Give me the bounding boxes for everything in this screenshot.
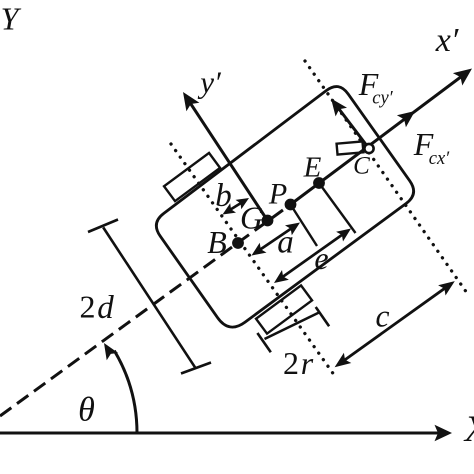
svg-text:P: P — [268, 178, 287, 211]
2d end tick top — [88, 220, 118, 233]
svg-text:X: X — [463, 409, 474, 450]
2r end tick right — [316, 307, 329, 326]
svg-text:C: C — [353, 153, 370, 180]
svg-text:x′: x′ — [435, 22, 459, 59]
force arrow F_cy' at C — [337, 107, 369, 149]
svg-text:2: 2 — [80, 289, 96, 325]
point B dot — [232, 237, 244, 249]
dotted axle line through B — [171, 144, 337, 379]
svg-text:2: 2 — [283, 345, 299, 381]
2d end tick bottom — [181, 363, 211, 374]
svg-text:y′: y′ — [197, 65, 222, 100]
svg-text:G: G — [240, 200, 263, 236]
dashed axis line through B and G to P — [0, 205, 291, 417]
X axis — [0, 432, 438, 435]
2r end tick left — [257, 333, 270, 352]
y' axis from G — [189, 101, 268, 221]
point C (castor contact) open circle — [364, 144, 373, 153]
foot line from E — [319, 183, 356, 233]
svg-text:B: B — [207, 224, 227, 260]
dimension arrow e — [281, 233, 344, 278]
wheel W1 (left drive wheel) — [164, 153, 220, 201]
point P dot — [285, 199, 297, 211]
svg-text:cx′: cx′ — [429, 149, 450, 169]
svg-text:c: c — [376, 299, 390, 334]
svg-text:θ: θ — [78, 392, 95, 429]
wheel W2 (right drive wheel) — [256, 285, 312, 333]
dimension arrow b — [229, 202, 243, 211]
dimension 2r line — [265, 313, 320, 340]
theta angle arc — [114, 351, 137, 433]
svg-text:e: e — [314, 240, 328, 276]
point E dot — [313, 177, 325, 189]
svg-text:a: a — [277, 225, 294, 261]
x' axis line from P through C — [291, 75, 464, 205]
dimension 2d line — [103, 227, 196, 368]
svg-text:E: E — [303, 152, 322, 184]
point G dot — [262, 215, 274, 227]
body outline — [156, 87, 413, 328]
svg-text:cy′: cy′ — [372, 89, 393, 109]
dimension arrow a — [258, 227, 293, 251]
force F_cx' arrowhead along x' — [397, 111, 415, 127]
svg-text:d: d — [97, 290, 114, 326]
dotted line through C — [305, 61, 467, 293]
castor wheel at C — [337, 141, 364, 154]
foot line from P — [291, 205, 318, 247]
svg-text:r: r — [301, 345, 314, 381]
dimension arrow c — [342, 287, 447, 362]
svg-text:b: b — [215, 178, 232, 214]
